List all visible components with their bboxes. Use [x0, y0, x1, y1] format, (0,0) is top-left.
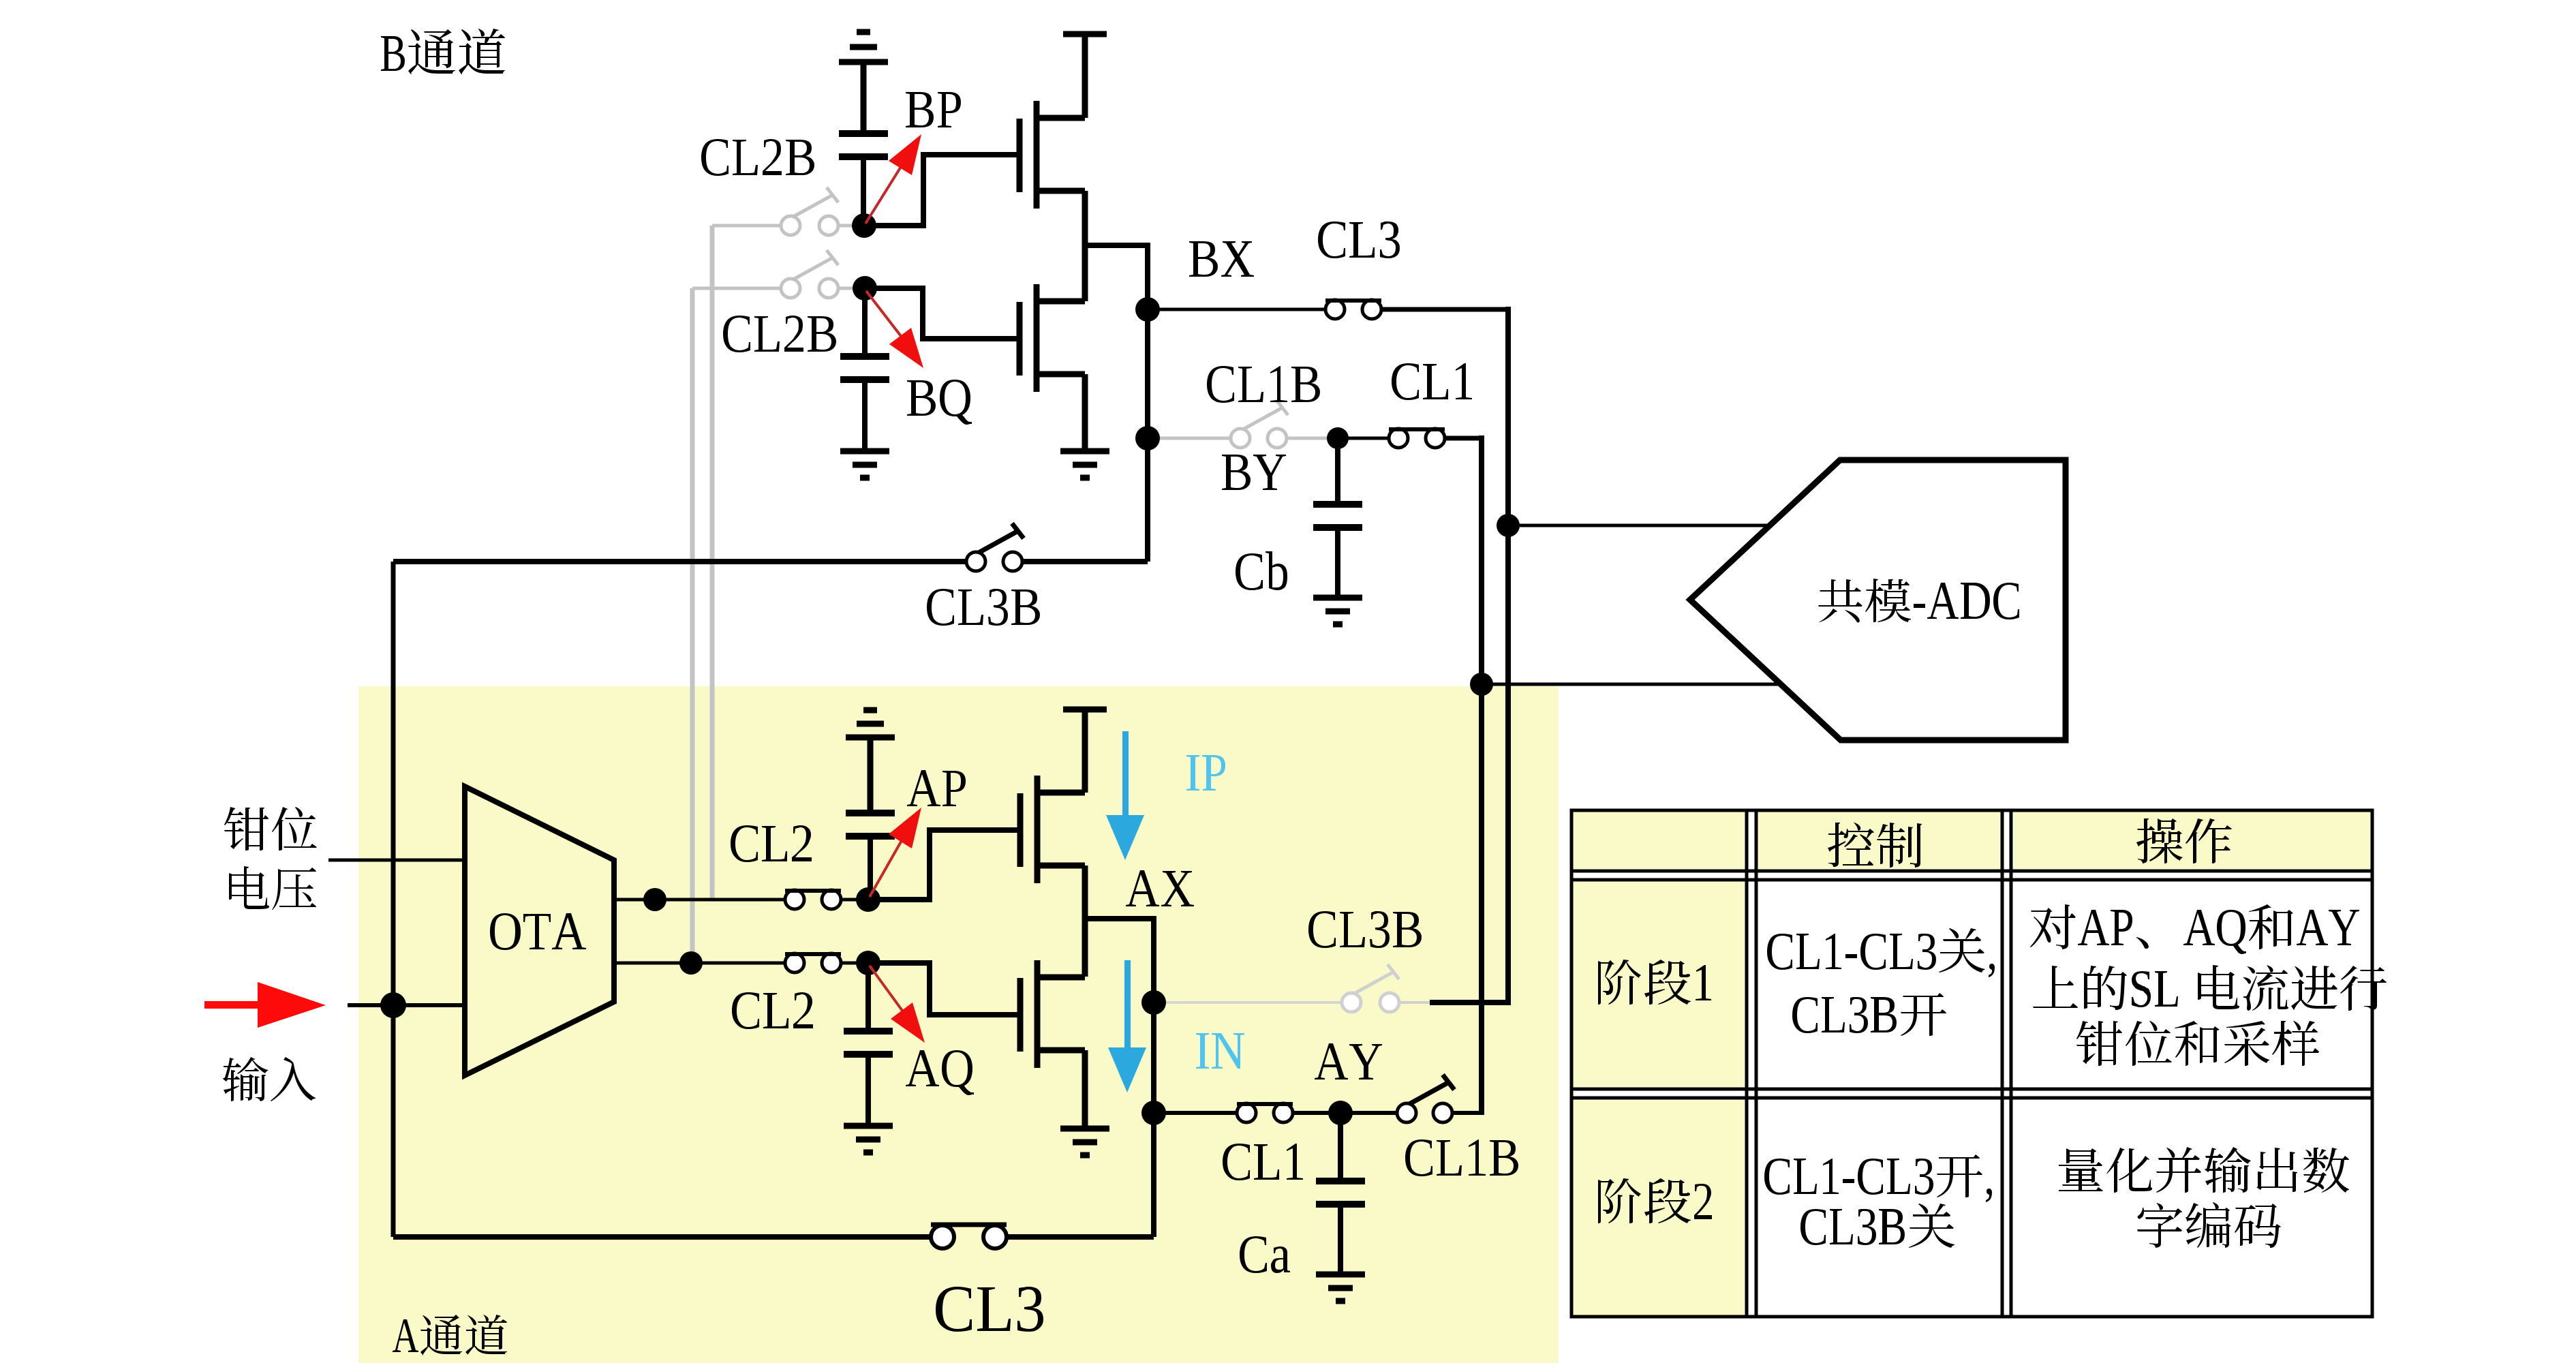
label AY: [1315, 1043, 1382, 1079]
label CL1B B row: [1207, 366, 1320, 403]
wire tap to ADC upper input: [1508, 524, 1771, 527]
table cell 阶段1: [1598, 960, 1711, 1005]
node AN: [1141, 1101, 1166, 1125]
switch CL2B (row2, open, gray): [781, 279, 800, 298]
red annotation arrow AP: [870, 838, 903, 897]
table cell control phase1 line2: [1792, 993, 1946, 1036]
node OTA upper output: [643, 888, 666, 911]
red annotation arrow BQ: [866, 291, 903, 339]
label IP: [1186, 755, 1225, 791]
wire node to capacitor Cb: [1335, 438, 1340, 503]
capacitor CL2 lower (A channel, AQ): [844, 963, 893, 1124]
wire node AY down to capacitor Ca: [1338, 1113, 1343, 1180]
label IN: [1196, 1033, 1244, 1069]
label B channel: [381, 29, 506, 74]
switch CL3B (B channel, open, black): [966, 523, 1024, 571]
node AY: [1328, 1101, 1353, 1125]
label input: [223, 1057, 316, 1101]
switch CL2B (row1, open, gray): [781, 216, 800, 235]
capacitor Cb: [1313, 504, 1362, 596]
table cell operation phase1 line1: [2030, 904, 2359, 954]
node Cb junction: [1327, 427, 1349, 449]
transistor Q4 (A channel bottom): [1020, 960, 1085, 1068]
wire node AN down to CL3 bottom row: [1151, 1113, 1156, 1237]
label CL2B upper: [701, 139, 814, 176]
switch CL3 (bottom, closed): [931, 1225, 1007, 1249]
ground below Cb: [1313, 598, 1362, 624]
ground below Ca: [1316, 1274, 1365, 1301]
label CL3 bottom: [936, 1287, 1043, 1332]
node BP: [852, 213, 876, 238]
label Cb: [1236, 551, 1287, 590]
ground below capacitor CL2B lower: [840, 451, 889, 478]
wire switch CL2 to node AP: [841, 898, 859, 902]
wire Q3 source to Q4 drain: [1082, 866, 1088, 977]
label OTA: [490, 913, 586, 950]
wire left feedback vertical: [391, 562, 396, 1237]
node AQ: [856, 951, 880, 975]
label Ca: [1240, 1236, 1290, 1273]
label CL3B A row: [1308, 911, 1422, 948]
wire branch to node AX: [1085, 919, 1154, 1002]
wire node BP to gate of Q1: [864, 155, 1017, 226]
inverted ground above capacitor CL2B (B channel): [839, 32, 888, 132]
node ADC lower tap: [1470, 673, 1493, 696]
table header 控制: [1828, 823, 1922, 868]
wire tap to ADC lower input: [1482, 683, 1780, 686]
ground below Q2: [1060, 451, 1109, 478]
node BX: [1135, 297, 1160, 322]
wire branch to node BX: [1085, 245, 1148, 309]
ground below capacitor AQ: [844, 1126, 893, 1152]
wire gray CL2B row2 to node BQ: [838, 287, 858, 290]
label BY: [1222, 455, 1286, 490]
blue arrow IP: [1106, 731, 1144, 860]
label ADC: [1818, 579, 2019, 622]
wire node AY to switch CL1B (A row): [1340, 1111, 1397, 1115]
red annotation arrow BP: [865, 164, 903, 224]
table cell operation phase1 line2: [2033, 965, 2387, 1011]
switch CL2 (A row lower, closed): [785, 953, 841, 973]
table cell 阶段2: [1598, 1178, 1712, 1223]
label CL2B lower: [723, 316, 836, 352]
table background: [1571, 810, 2372, 1317]
red annotation arrow AQ: [870, 966, 904, 1013]
switch CL1 (B row, closed): [1389, 429, 1445, 448]
switch CL1 (A row, closed): [1237, 1103, 1293, 1122]
node ADC upper tap: [1497, 514, 1520, 537]
red input arrow: [204, 982, 326, 1028]
label CL3B B channel: [927, 589, 1040, 626]
table white cell operation phase2: [2011, 1098, 2372, 1317]
capacitor CL2B upper (B channel): [839, 134, 888, 226]
wire gray vertical from CL2B row2 to OTA lower output: [690, 288, 695, 963]
wire OTA upper output to switch CL2: [614, 898, 785, 902]
VDD rail A: [1063, 707, 1107, 713]
wire VDD rail A to drain Q3: [1082, 709, 1088, 793]
table cell control phase2 line2: [1800, 1204, 1954, 1248]
A-channel yellow region: [358, 686, 1559, 1363]
wire CL3B switch to BY vertical: [1022, 559, 1148, 564]
wire node BQ to gate of Q2: [865, 288, 1017, 339]
wire gray vertical from CL2B row1 to OTA upper output: [710, 226, 715, 900]
wire CL3 bottom row left: [393, 1234, 932, 1240]
label CL1B A row: [1405, 1139, 1518, 1176]
label clamp line2: [229, 866, 316, 910]
capacitor CL2 upper (A channel, AP): [846, 813, 895, 900]
table row separator (double): [1571, 1088, 2372, 1091]
node BQ: [853, 276, 877, 301]
switch CL1B (A row, open, black): [1397, 1075, 1454, 1122]
wire right vertical (BX net) down to CL3B A-row: [1505, 307, 1511, 1002]
switch CL3 (top, closed): [1325, 300, 1381, 319]
label CL1 B row: [1392, 363, 1472, 400]
table white cell operation phase1: [2011, 880, 2372, 1089]
table white cell control phase1: [1756, 880, 2002, 1089]
wire clamp voltage input to OTA: [328, 859, 465, 862]
switch CL3B (A row, open, light gray): [1342, 964, 1430, 1012]
wire gray node BY to switch CL1B: [1148, 437, 1231, 440]
wire Q2 source to ground: [1082, 374, 1088, 450]
table cell control phase2 line1: [1764, 1154, 1992, 1202]
wire switch CL3 to right vertical: [1381, 307, 1511, 312]
table cell operation phase1 line3: [2076, 1021, 2319, 1066]
node BY: [1135, 426, 1160, 450]
label CL1 A row: [1223, 1144, 1303, 1180]
wire switch CL1 to node AY: [1293, 1111, 1340, 1115]
table cell operation phase2 line2: [2137, 1202, 2281, 1248]
capacitor CL2B lower (B channel): [840, 288, 889, 450]
wire node AN to switch CL1 (A row): [1154, 1111, 1237, 1115]
node OTA lower output: [679, 951, 703, 975]
transistor Q1 (B channel top): [1019, 101, 1085, 209]
table separator white gaps: [1745, 810, 1758, 1317]
label CL2 upper: [731, 825, 812, 862]
wire VDD rail B to drain Q1: [1082, 34, 1088, 118]
wire CL3B black segment to BX-net vertical: [1430, 1000, 1511, 1005]
wire node BX down to node BY down to CL3B row: [1145, 309, 1150, 562]
label CL2 lower: [732, 992, 813, 1029]
wire CL3B row (B channel): [393, 559, 966, 564]
wire CL1 to node: [1338, 437, 1390, 440]
wire OTA lower output to switch CL2: [614, 962, 785, 965]
table cell operation phase2 line1: [2059, 1147, 2349, 1193]
label AX: [1126, 870, 1194, 906]
table cell control phase1 line1: [1767, 928, 1995, 977]
label BX: [1189, 241, 1254, 277]
table white cell control phase2: [1756, 1098, 2002, 1317]
capacitor Ca: [1316, 1181, 1365, 1273]
wire Q4 source to ground: [1082, 1050, 1088, 1127]
label clamp line1: [224, 807, 317, 851]
blue arrow IN: [1108, 960, 1146, 1092]
table outer border: [1571, 810, 2372, 1317]
transistor Q3 (A channel top): [1020, 776, 1085, 883]
wire node AQ to gate of Q4: [868, 963, 1020, 1015]
label AQ: [906, 1050, 974, 1095]
node AP: [856, 887, 880, 912]
inverted ground above capacitor CL2 upper (A channel): [846, 710, 895, 812]
label A channel: [393, 1315, 507, 1356]
op-amp OTA: [465, 786, 614, 1075]
wire switch CL1 to right vertical: [1444, 436, 1484, 441]
node input: [380, 992, 406, 1018]
label BQ: [907, 380, 972, 425]
wire Q1 source to Q2 drain: [1082, 191, 1088, 301]
label CL3 top: [1318, 221, 1400, 258]
ADC pentagon: [1690, 460, 2066, 740]
wire switch CL1B to BY-net vertical: [1452, 1111, 1484, 1115]
wire gray CL2B row1: [712, 224, 781, 228]
wire switch CL2 to node AQ: [841, 962, 859, 965]
wire gray CL1B to node: [1287, 437, 1327, 440]
wire signal input to OTA: [348, 1003, 465, 1007]
switch CL1B (B row, open, gray): [1231, 429, 1250, 448]
table column separator 1 (double): [1745, 810, 1749, 1317]
label AP: [907, 770, 966, 806]
wire node BX to switch CL3: [1148, 308, 1326, 311]
table header separator (double): [1571, 870, 2372, 873]
wire gray CL2B row2: [692, 287, 781, 290]
switch CL2 (A row upper, closed): [785, 890, 841, 909]
table column separator 2 (double): [2001, 810, 2004, 1317]
wire node AX to node AN: [1151, 1002, 1156, 1113]
transistor Q2 (B channel bottom): [1019, 284, 1085, 392]
wire node AP to gate of Q3: [868, 830, 1020, 900]
wire CL3 bottom row right: [1007, 1234, 1154, 1240]
VDD rail B: [1063, 31, 1107, 37]
node AX: [1141, 990, 1166, 1015]
wire right vertical (BY net) down to CL1B A-row: [1479, 435, 1484, 1113]
table header 操作: [2136, 818, 2232, 863]
ground below Q4: [1060, 1129, 1109, 1155]
label BP: [906, 92, 961, 127]
wire light-gray node AX to switch CL3B (A row): [1154, 1001, 1342, 1004]
wire gray CL2B row1 to node BP: [838, 224, 857, 228]
